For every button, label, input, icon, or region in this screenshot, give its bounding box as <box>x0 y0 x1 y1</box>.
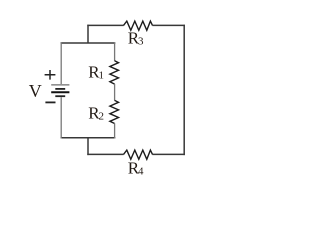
label R1 <box>88 63 104 82</box>
wire: R branch bottom vertical below R2 <box>114 123 116 138</box>
wire: outer bottom-left stub vertical <box>87 138 89 155</box>
svg-text:R2: R2 <box>88 103 104 122</box>
svg-text:R4: R4 <box>128 159 144 178</box>
resistor R2 zigzag <box>110 100 119 123</box>
battery V: lower long plate <box>51 91 69 93</box>
label R3 <box>128 29 144 48</box>
wire: outer top-left stub vertical <box>87 25 89 43</box>
wire: battery branch lower vertical <box>60 97 62 138</box>
battery plus sign <box>45 70 56 80</box>
resistor R1 zigzag <box>110 61 119 84</box>
svg-text:V: V <box>29 81 42 101</box>
wire: outer bottom horizontal right of R4 <box>152 153 185 155</box>
label R2 <box>88 103 104 122</box>
label V <box>29 81 42 101</box>
svg-text:R1: R1 <box>88 63 104 82</box>
resistor R4 zigzag <box>124 150 153 159</box>
wire: outer right vertical <box>183 25 185 155</box>
battery V: bottom short plate <box>55 95 65 97</box>
wire: inner loop bottom horizontal <box>61 137 116 139</box>
wire: outer top horizontal right of R3 <box>152 24 185 26</box>
wire: outer bottom horizontal left of R4 <box>87 153 123 155</box>
wire: outer top horizontal left of R3 <box>87 24 123 26</box>
wire: battery branch upper vertical <box>60 42 62 84</box>
wire: R branch middle vertical between R1 and R2 <box>114 84 116 101</box>
battery minus sign <box>45 101 55 103</box>
wire: inner loop top horizontal <box>61 42 116 44</box>
battery V: upper short plate <box>55 88 65 90</box>
resistor R3 zigzag <box>124 21 153 30</box>
wire: R branch top vertical <box>114 42 116 61</box>
label R4 <box>128 159 144 178</box>
svg-text:R3: R3 <box>128 29 144 48</box>
battery V: top long plate <box>51 84 69 86</box>
